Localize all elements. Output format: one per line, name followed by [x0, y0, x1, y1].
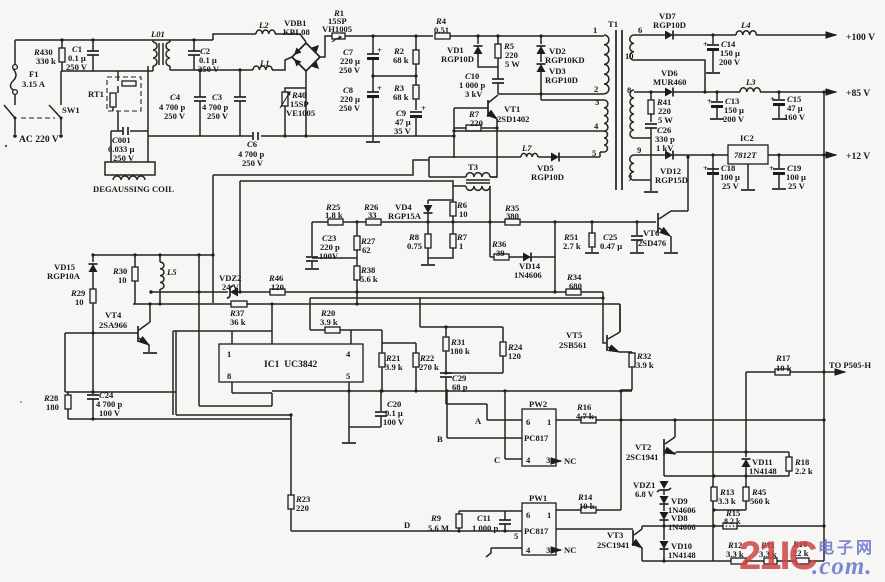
wire line1 from left — [213, 157, 429, 177]
svg-text:1N4148: 1N4148 — [668, 550, 696, 560]
svg-text:200 V: 200 V — [723, 114, 745, 124]
wire R20 row — [310, 298, 382, 344]
inductor L4 — [736, 20, 756, 35]
svg-text:35 V: 35 V — [394, 126, 412, 136]
switch SW1 pole 1 — [4, 105, 17, 138]
ground under C8 — [366, 141, 380, 143]
resistor R20 — [320, 308, 340, 333]
capacitor C13 — [707, 90, 745, 124]
transformer T3 — [429, 162, 497, 222]
resistor R4 — [434, 16, 604, 39]
resistor R45 — [712, 476, 770, 512]
svg-text:21IC: 21IC — [739, 534, 817, 578]
svg-text:100 V: 100 V — [99, 408, 121, 418]
svg-text:VE1005: VE1005 — [286, 108, 315, 118]
resistor R3 — [393, 76, 419, 110]
svg-text:R17: R17 — [775, 353, 791, 363]
svg-text:68 p: 68 p — [452, 382, 468, 392]
resistor R37 — [229, 301, 247, 327]
capacitor C9 — [394, 103, 426, 136]
wire pin7 ground — [634, 179, 651, 181]
svg-text:1: 1 — [459, 241, 463, 251]
svg-text:4: 4 — [526, 455, 531, 465]
svg-text:6: 6 — [526, 417, 531, 427]
resistor R11 — [759, 540, 777, 564]
diode VD5 — [531, 153, 600, 183]
resistor R28 — [43, 392, 71, 419]
svg-text:RGP10D: RGP10D — [653, 20, 686, 30]
wire lower feedback row — [664, 456, 789, 476]
regulator IC2 7812T — [728, 133, 836, 190]
svg-text:160 V: 160 V — [784, 112, 806, 122]
capacitor C6 — [238, 132, 264, 168]
svg-text:L4: L4 — [740, 20, 751, 30]
svg-text:36 k: 36 k — [230, 317, 246, 327]
resistor R14 — [577, 492, 596, 513]
svg-text:+: + — [377, 45, 382, 55]
inductor L3 — [740, 77, 760, 92]
fuse F1 — [10, 40, 45, 105]
capacitor C23 — [305, 222, 340, 269]
svg-text:T1: T1 — [608, 19, 618, 29]
svg-text:7: 7 — [628, 173, 633, 183]
svg-text:2.2 k: 2.2 k — [795, 466, 813, 476]
capacitor C3 — [202, 70, 246, 136]
capacitor C29 — [440, 373, 468, 404]
svg-text:120: 120 — [508, 351, 521, 361]
svg-text:6.8 V: 6.8 V — [635, 489, 655, 499]
svg-text:C6: C6 — [247, 139, 258, 149]
wire VT1 collector net — [498, 94, 604, 100]
svg-text:+85 V: +85 V — [846, 88, 870, 99]
svg-text:1: 1 — [227, 349, 231, 359]
wire after L01 — [170, 34, 256, 70]
wire PW2 pin1 row — [556, 419, 824, 421]
wire feedback bus1 — [712, 155, 714, 561]
resistor R38 — [354, 265, 378, 306]
varistor R40 — [280, 88, 315, 136]
wire C29 bottom to A — [446, 404, 487, 420]
svg-text:10 k: 10 k — [776, 363, 792, 373]
svg-text:3: 3 — [546, 455, 550, 465]
svg-text:L7: L7 — [521, 143, 532, 153]
wire degauss verticals — [111, 66, 148, 162]
svg-text:SW1: SW1 — [62, 105, 80, 115]
svg-text:7812T: 7812T — [734, 150, 757, 160]
svg-text:RGP15D: RGP15D — [655, 175, 688, 185]
capacitor C18 — [703, 153, 740, 191]
wire left aux rail — [92, 175, 213, 303]
resistor R17 — [775, 353, 792, 375]
wire pin1 loop — [173, 181, 272, 415]
wire pin8 loop — [199, 255, 272, 406]
wire R9/C11 top row — [459, 510, 522, 512]
capacitor C2 — [188, 40, 220, 74]
wire line VDZ2/R34 — [151, 292, 606, 343]
svg-text:2.7 k: 2.7 k — [563, 241, 581, 251]
wire pin8 line — [634, 91, 665, 93]
resistor R32 — [621, 351, 654, 510]
diode VD15 — [47, 255, 98, 289]
fusible resistor R1 — [322, 8, 352, 42]
svg-text:1: 1 — [547, 510, 551, 520]
wire R28/C24 top — [65, 391, 176, 393]
resistor R30 — [112, 255, 138, 304]
svg-text:L01: L01 — [150, 29, 165, 39]
svg-text:VT2: VT2 — [635, 442, 651, 452]
svg-text:2SD476: 2SD476 — [638, 238, 667, 248]
T1 secondary winding pins 9-7 — [628, 145, 641, 183]
svg-text:+: + — [421, 103, 426, 113]
capacitor C8 — [339, 76, 382, 141]
svg-text:25 V: 25 V — [722, 181, 740, 191]
svg-text:L5: L5 — [166, 267, 177, 277]
svg-text:68 k: 68 k — [393, 55, 409, 65]
resistor R6 — [450, 200, 468, 222]
wire bottom rail — [642, 560, 824, 562]
svg-text:3: 3 — [546, 545, 550, 555]
T1 secondary winding pins 6-10 — [625, 25, 643, 61]
svg-text:0.75: 0.75 — [407, 241, 422, 251]
svg-text:1N4148: 1N4148 — [749, 466, 777, 476]
wire bottom left rails — [68, 331, 291, 419]
svg-text:250 V: 250 V — [207, 111, 229, 121]
wire PW1 pin4 stub — [486, 548, 522, 557]
svg-text:3.9 k: 3.9 k — [385, 362, 403, 372]
wire C to PW2 — [505, 391, 522, 459]
transistor VT1 2SD1402 — [454, 95, 529, 177]
svg-text:PC817: PC817 — [524, 433, 549, 443]
wire R17 row — [746, 371, 845, 373]
diode VD10 — [660, 524, 697, 562]
svg-text:+: + — [769, 163, 774, 173]
resistor R10 — [792, 539, 809, 564]
svg-text:5.6 M: 5.6 M — [428, 523, 449, 533]
svg-text:100V: 100V — [319, 251, 339, 261]
resistor R26 — [363, 202, 381, 225]
transistor VT6 2SD476 — [638, 155, 690, 253]
svg-text:8: 8 — [227, 371, 232, 381]
svg-text:+: + — [770, 94, 775, 104]
svg-text:1 000 p: 1 000 p — [472, 523, 498, 533]
svg-text:VH1005: VH1005 — [322, 24, 352, 34]
inductor L2 — [256, 20, 306, 42]
svg-text:10: 10 — [118, 275, 127, 285]
svg-text:560 k: 560 k — [750, 496, 770, 506]
svg-text:T3: T3 — [468, 162, 478, 172]
resistor R15 — [723, 508, 741, 529]
degaussing coil — [93, 162, 174, 194]
resistor R12 — [726, 540, 746, 564]
svg-text:3.3 k: 3.3 k — [718, 496, 736, 506]
svg-text:VT4: VT4 — [105, 310, 122, 320]
wire PW1 NC — [556, 549, 561, 551]
svg-text:3.9 k: 3.9 k — [636, 360, 654, 370]
resistor R23 — [288, 415, 310, 531]
resistor R21 — [379, 330, 403, 391]
wire D line — [291, 530, 522, 532]
svg-text:RGP10KD: RGP10KD — [545, 55, 585, 65]
svg-text:9: 9 — [637, 145, 641, 155]
svg-text:62: 62 — [362, 245, 371, 255]
wire pin10 return — [634, 60, 705, 92]
capacitor C14 — [703, 33, 741, 73]
transistor VT3 2SC1941 — [597, 526, 642, 561]
capacitor C24 — [87, 390, 122, 419]
svg-text:1: 1 — [547, 417, 551, 427]
resistor R36 bypass — [490, 222, 523, 260]
resistor R24 — [444, 342, 523, 375]
capacitor C19 — [769, 153, 806, 191]
capacitor C1 — [66, 40, 99, 72]
wire PW1 pin1 row — [556, 509, 621, 511]
svg-text:24 V: 24 V — [222, 282, 240, 292]
svg-text:330 k: 330 k — [36, 56, 56, 66]
wire top rail — [15, 39, 213, 41]
svg-text:4: 4 — [346, 349, 351, 359]
svg-text:3: 3 — [595, 97, 599, 107]
resistor R7b — [428, 222, 468, 258]
resistor R35 — [504, 203, 520, 225]
zener VDZ1 — [633, 480, 671, 499]
resistor R41 — [648, 90, 673, 125]
T1 secondary winding pin 8 — [627, 85, 634, 138]
svg-text:VT1: VT1 — [504, 104, 520, 114]
svg-text:PW1: PW1 — [529, 493, 547, 503]
svg-text:3.9 k: 3.9 k — [320, 317, 338, 327]
wire line lower — [310, 297, 603, 299]
capacitor C001 — [108, 127, 148, 163]
svg-text:10: 10 — [75, 297, 84, 307]
capacitor C4 — [159, 70, 206, 136]
svg-text:MUR460: MUR460 — [653, 77, 686, 87]
svg-text:VT6: VT6 — [643, 228, 660, 238]
resistor R9 — [428, 511, 462, 533]
svg-text:NC: NC — [564, 456, 576, 466]
inductor L7 — [429, 143, 538, 157]
wire R30/L5 bottom + R37 row — [133, 304, 620, 344]
svg-text:L3: L3 — [745, 77, 756, 87]
T1 primary winding pins 4-5 — [592, 131, 608, 158]
svg-text:.com.: .com. — [812, 553, 873, 580]
resistor R8 — [407, 222, 435, 265]
wire VT4 base — [65, 333, 138, 392]
diode VD7 — [653, 11, 836, 40]
capacitor C26 — [634, 124, 675, 192]
resistor R16 — [576, 402, 596, 423]
svg-text:PW2: PW2 — [529, 399, 547, 409]
optocoupler PW1 PC817 — [514, 493, 556, 555]
svg-text:6: 6 — [638, 25, 643, 35]
resistor R22 — [382, 343, 439, 391]
capacitor C15 — [770, 90, 806, 122]
svg-text:+: + — [703, 39, 708, 49]
svg-text:25 V: 25 V — [788, 181, 806, 191]
wire line2 from left — [240, 181, 453, 200]
svg-text:8.2 k: 8.2 k — [724, 517, 741, 526]
diode VD14 — [514, 222, 557, 294]
wire pin9 line — [634, 154, 665, 156]
wire C7C8 mid to R2R3 — [373, 75, 416, 77]
svg-text:250 V: 250 V — [339, 65, 361, 75]
resistor R25 — [325, 202, 343, 225]
svg-text:2: 2 — [594, 84, 598, 94]
svg-text:2SD1402: 2SD1402 — [497, 114, 529, 124]
wire main bus — [312, 221, 656, 223]
resistor R51 — [563, 222, 599, 253]
resistor R13 — [711, 487, 736, 506]
svg-text:+: + — [377, 83, 382, 93]
wire +85 bus down — [822, 90, 825, 93]
svg-text:A: A — [475, 416, 482, 426]
svg-text:250 V: 250 V — [339, 103, 361, 113]
svg-text:C11: C11 — [477, 513, 491, 523]
svg-text:2SB561: 2SB561 — [559, 340, 587, 350]
svg-text:2SC1941: 2SC1941 — [597, 540, 629, 550]
svg-text:5 W: 5 W — [505, 59, 520, 69]
transistor VT2 2SC1941 — [626, 420, 675, 462]
T1 primary winding pins 1-2 — [593, 25, 609, 94]
bridge rectifier VDB1 KBL08 — [283, 18, 320, 71]
svg-text:120: 120 — [271, 282, 284, 292]
resistor R5 — [495, 36, 520, 69]
svg-text:3 kV: 3 kV — [465, 89, 483, 99]
svg-text:380: 380 — [506, 211, 519, 221]
svg-text:5 W: 5 W — [658, 115, 673, 125]
svg-text:+: + — [703, 163, 708, 173]
svg-text:6: 6 — [526, 510, 531, 520]
svg-text:AC 220 V: AC 220 V — [19, 134, 59, 145]
wire bottom primary rail — [148, 135, 454, 137]
svg-text:10 k: 10 k — [579, 501, 595, 511]
transistor VT5 2SB561 — [559, 304, 632, 352]
scan speck — [5, 145, 7, 147]
svg-text:200 V: 200 V — [719, 57, 741, 67]
diode VD6 — [653, 68, 836, 97]
svg-text:RGP10D: RGP10D — [441, 54, 474, 64]
wire R31/R24 top row — [420, 297, 503, 342]
wire PW1 to VT3 base — [556, 528, 633, 530]
transistor VT4 2SA966 — [99, 304, 157, 353]
inductor L5 — [160, 255, 177, 304]
svg-text:1: 1 — [593, 25, 597, 35]
svg-text:10: 10 — [625, 51, 634, 61]
svg-text:F1: F1 — [29, 69, 39, 79]
svg-text:4: 4 — [594, 121, 599, 131]
svg-text:680: 680 — [569, 281, 582, 291]
capacitor C11 — [472, 511, 511, 533]
transformer T1 core — [608, 19, 622, 190]
svg-text:33: 33 — [368, 210, 377, 220]
resistor R27 — [312, 220, 376, 266]
svg-text:270 k: 270 k — [419, 362, 439, 372]
svg-text:2SA966: 2SA966 — [99, 320, 128, 330]
wire bridge outputs — [306, 36, 433, 136]
zener VDZ2 — [219, 273, 241, 299]
svg-text:TO P505-H: TO P505-H — [829, 360, 871, 370]
wire VT2 emitter row — [676, 451, 789, 453]
diode VD8 — [660, 512, 697, 532]
svg-text:3.15 A: 3.15 A — [22, 79, 46, 89]
line filter L01 — [150, 29, 170, 71]
resistor R2 — [393, 36, 419, 76]
capacitor C10 — [459, 67, 504, 99]
diode VD4 — [388, 200, 433, 222]
wire PW2 NC — [556, 460, 561, 462]
svg-text:4: 4 — [526, 545, 531, 555]
diode VD1 — [441, 36, 498, 67]
svg-text:RGP15A: RGP15A — [388, 211, 422, 221]
switch linkage dashed — [21, 117, 55, 119]
resistor R34 — [566, 272, 582, 295]
svg-text:L2: L2 — [258, 20, 269, 30]
svg-text:+100 V: +100 V — [846, 32, 875, 43]
svg-text:RT1: RT1 — [88, 89, 104, 99]
svg-text:PC817: PC817 — [524, 526, 549, 536]
svg-text:220: 220 — [296, 503, 309, 513]
svg-text:250 V: 250 V — [242, 158, 264, 168]
diode VD9 — [660, 496, 697, 515]
diode VD11 — [742, 450, 778, 476]
wire grand gnd line — [272, 390, 632, 392]
resistor R7 — [452, 108, 498, 158]
svg-text:RGP10D: RGP10D — [531, 172, 564, 182]
svg-text:5: 5 — [346, 371, 350, 381]
svg-text:2SC1941: 2SC1941 — [626, 452, 658, 462]
resistor R29 — [70, 288, 96, 392]
svg-text:100 V: 100 V — [383, 417, 405, 427]
svg-text:L1: L1 — [259, 58, 270, 68]
svg-text:8: 8 — [627, 85, 632, 95]
svg-text:1N4606: 1N4606 — [668, 522, 696, 532]
T1 primary winding pins 3-4 — [452, 97, 608, 133]
svg-text:RGP10D: RGP10D — [545, 75, 578, 85]
wire mid rail y526 — [642, 525, 824, 527]
svg-text:KBL08: KBL08 — [283, 27, 310, 37]
wire B to PW2 — [447, 391, 522, 438]
svg-text:39: 39 — [496, 248, 505, 258]
diode VD12 — [655, 151, 728, 186]
svg-text:220: 220 — [470, 118, 483, 128]
inductor L1 — [253, 57, 292, 70]
svg-text:D: D — [404, 520, 410, 530]
thermistor RT1 — [88, 71, 141, 131]
svg-text:180: 180 — [46, 402, 59, 412]
optocoupler PW2 PC817 — [522, 399, 556, 466]
resistor R18 — [786, 452, 813, 476]
capacitor C25 — [600, 222, 644, 253]
svg-text:180 k: 180 k — [450, 346, 470, 356]
svg-text:250 V: 250 V — [198, 64, 220, 74]
svg-text:1N4606: 1N4606 — [514, 270, 542, 280]
svg-text:1.8 k: 1.8 k — [325, 210, 343, 220]
wire A to PW2 — [487, 419, 522, 421]
svg-text:4.7 k: 4.7 k — [576, 411, 594, 421]
svg-text:+: + — [707, 96, 712, 106]
svg-text:250 V: 250 V — [164, 111, 186, 121]
diode VD3 — [537, 64, 578, 94]
svg-text:VT5: VT5 — [566, 330, 582, 340]
switch SW1 pole 2 — [49, 71, 80, 138]
svg-text:0.47 μ: 0.47 μ — [600, 241, 622, 251]
resistor R46 — [268, 273, 285, 295]
capacitor C7 — [339, 36, 382, 76]
svg-text:R9: R9 — [430, 513, 441, 523]
svg-text:B: B — [437, 434, 443, 444]
diode VD2 — [537, 36, 585, 65]
wire lower ac rail — [61, 70, 153, 72]
svg-text:NC: NC — [564, 545, 576, 555]
